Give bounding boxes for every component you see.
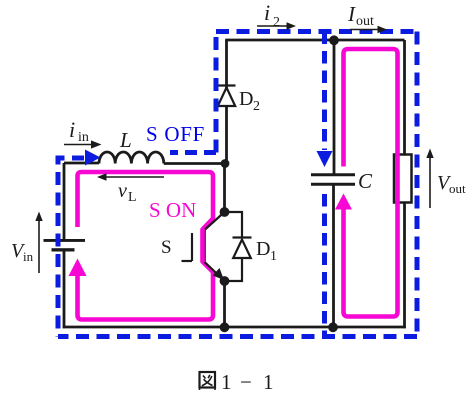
svg-text:C: C (358, 169, 373, 193)
svg-text:S ON: S ON (149, 198, 196, 222)
svg-text:out: out (449, 181, 466, 196)
svg-text:S: S (161, 237, 172, 258)
svg-text:1: 1 (263, 370, 274, 394)
svg-text:v: v (118, 180, 127, 202)
svg-text:1: 1 (221, 370, 232, 394)
svg-text:L: L (128, 190, 137, 205)
svg-text:2: 2 (253, 99, 260, 114)
svg-text:S OFF: S OFF (146, 122, 205, 146)
svg-text:D: D (256, 238, 270, 260)
svg-text:in: in (78, 130, 89, 145)
svg-text:i: i (69, 117, 75, 142)
svg-text:i: i (264, 0, 270, 25)
svg-text:I: I (347, 2, 356, 26)
svg-text:2: 2 (273, 15, 280, 30)
svg-text:L: L (119, 128, 132, 152)
svg-text:out: out (356, 14, 374, 29)
svg-text:in: in (23, 249, 34, 264)
svg-text:1: 1 (270, 249, 277, 264)
svg-text:D: D (239, 88, 253, 110)
svg-text:−: − (240, 370, 252, 394)
